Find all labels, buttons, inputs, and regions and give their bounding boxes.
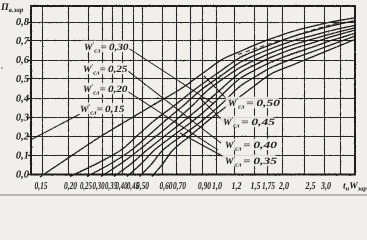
svg-text:0,0: 0,0 <box>16 170 30 181</box>
svg-text:0,8: 0,8 <box>16 17 30 28</box>
curve W'sl=0,15 <box>40 18 355 177</box>
svg-text:0,90: 0,90 <box>198 181 212 192</box>
svg-text:0,4: 0,4 <box>16 94 29 105</box>
svg-text:1,75: 1,75 <box>262 181 275 192</box>
svg-text:= 0,25: = 0,25 <box>100 65 128 75</box>
svg-text:3,0: 3,0 <box>320 181 331 192</box>
svg-text:2,5: 2,5 <box>305 181 316 192</box>
svg-text:1,0: 1,0 <box>212 181 223 192</box>
svg-text:1,2: 1,2 <box>232 181 243 192</box>
curve W'sl=0,35 <box>114 30 355 176</box>
curve W'sl=0,30 <box>101 28 355 177</box>
svg-text:= 0,50: = 0,50 <box>246 99 280 109</box>
curve W'sl=0,40 <box>127 33 355 176</box>
axes frame <box>31 6 355 175</box>
curve value labels <box>82 41 130 53</box>
curve W'sl=0,20 <box>70 21 355 177</box>
dashed auxiliary curve along bundle top <box>238 23 338 55</box>
svg-text:0,1: 0,1 <box>16 151 29 162</box>
svg-text:0,3: 0,3 <box>16 113 29 124</box>
svg-text:= 0,45: = 0,45 <box>241 118 275 128</box>
svg-text:0,60: 0,60 <box>160 181 174 192</box>
svg-text:0,30: 0,30 <box>93 181 105 192</box>
svg-text:0,6: 0,6 <box>16 55 30 66</box>
curve W'sl=0,25 <box>87 25 355 176</box>
axis ticks <box>28 23 32 175</box>
x axis numbers <box>35 181 332 192</box>
svg-text:0,70: 0,70 <box>173 181 187 192</box>
svg-text:= 0,40: = 0,40 <box>243 141 277 151</box>
svg-text:= 0,20: = 0,20 <box>100 85 128 95</box>
curve W'sl=0,50 <box>152 39 355 176</box>
grid lines <box>31 6 355 175</box>
svg-text:= 0,30: = 0,30 <box>101 43 129 53</box>
svg-text:,: , <box>1 61 3 70</box>
svg-text:0,20: 0,20 <box>64 181 78 192</box>
svg-text:2,0: 2,0 <box>278 181 289 192</box>
svg-text:0,2: 0,2 <box>16 132 30 143</box>
svg-text:0,5: 0,5 <box>16 74 29 85</box>
leader lines <box>32 49 230 159</box>
curve W'sl=0,45 <box>140 36 356 176</box>
y axis numbers <box>16 17 30 181</box>
svg-text:0,15: 0,15 <box>35 181 48 192</box>
curves W'sl=0.15..0.50 <box>40 18 355 177</box>
svg-text:0,25: 0,25 <box>80 181 92 192</box>
svg-text:0,50: 0,50 <box>136 181 150 192</box>
svg-text:0,7: 0,7 <box>16 36 30 47</box>
svg-text:1,5: 1,5 <box>251 181 261 192</box>
svg-text:= 0,35: = 0,35 <box>243 157 277 167</box>
scan artifact bottom edge <box>0 194 367 195</box>
svg-text:= 0,15: = 0,15 <box>97 105 125 115</box>
